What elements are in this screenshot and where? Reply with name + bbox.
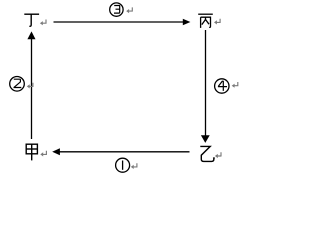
paragraph mark after 乙: [215, 152, 221, 158]
paragraph mark after circled 4: [232, 82, 238, 88]
paragraph mark after 丁: [40, 20, 46, 26]
wire: right arrow from 丙 to 乙: [201, 30, 210, 143]
wire: top arrow from 丁 to 丙: [54, 19, 191, 26]
node 丙 (top-right character): [198, 14, 213, 28]
paragraph mark after circled 1: [131, 163, 137, 169]
label circled 4: [215, 79, 229, 93]
node 甲 (bottom-left character): [26, 144, 37, 160]
wire: left arrow from 甲 to 丁: [27, 31, 35, 139]
paragraph mark after 丙: [214, 19, 220, 25]
label circled 1: [116, 158, 130, 172]
paragraph mark after circled 3: [126, 7, 132, 13]
node 乙 (bottom-right character): [200, 146, 214, 161]
label circled 2: [10, 77, 25, 92]
paragraph mark after 甲: [40, 151, 46, 157]
node 丁 (top-left character): [24, 14, 39, 26]
wire: bottom arrow from 乙 to 甲: [52, 148, 189, 155]
paragraph mark after circled 2: [27, 83, 33, 89]
label circled 3: [110, 3, 123, 16]
